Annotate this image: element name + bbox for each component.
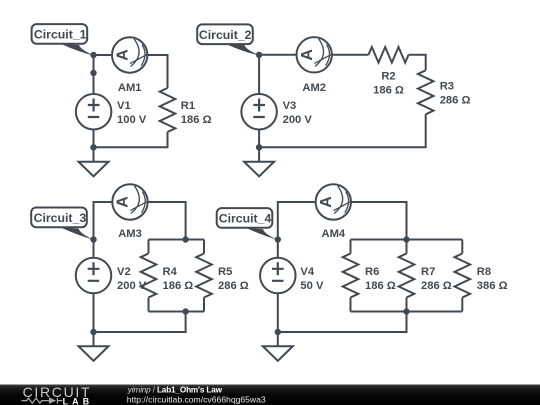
- junction dot at V4 bottom: [275, 329, 281, 335]
- voltage source V3: [241, 94, 277, 130]
- junction dot on wire A-V1: [90, 70, 96, 76]
- wire R1 bottom to ground junction: [94, 132, 168, 147]
- resistor R5: [196, 254, 212, 298]
- footer bar background: [0, 385, 540, 405]
- wire V2 bottom to ground junction: [93, 293, 95, 332]
- logo resistor-diode waveform: [22, 398, 63, 404]
- svg-text:http://circuitlab.com/cv666hqg: http://circuitlab.com/cv666hqg65wa3: [127, 394, 266, 404]
- svg-text:200 V: 200 V: [283, 114, 313, 126]
- wire V3 bottom to ground junction: [258, 129, 260, 147]
- wire R3 bottom to ground junction: [259, 114, 426, 147]
- svg-text:R8: R8: [477, 266, 491, 278]
- svg-text:Circuit_4: Circuit_4: [219, 212, 272, 226]
- R7 top stub: [406, 240, 408, 254]
- wire AM2 to R2: [333, 54, 369, 56]
- wire node A down to V1: [93, 55, 95, 94]
- resistor R4: [141, 254, 157, 298]
- svg-text:yiminp / Lab1_Ohm's Law: yiminp / Lab1_Ohm's Law: [127, 385, 223, 394]
- ammeter AM1: [112, 37, 147, 72]
- wire node C down to V2: [93, 240, 95, 259]
- R8 top stub: [461, 240, 463, 254]
- junction dot at V3 bottom: [256, 144, 262, 150]
- ground (circuit 3): [79, 332, 109, 361]
- ammeter AM2: [297, 37, 332, 72]
- node D junction dot: [275, 236, 281, 242]
- node flag Circuit_4: [217, 208, 279, 240]
- svg-text:Circuit_2: Circuit_2: [199, 28, 252, 42]
- junction dot top rail (circuit 3): [182, 236, 188, 242]
- ground (circuit 4): [263, 332, 293, 361]
- svg-text:50 V: 50 V: [300, 280, 324, 292]
- svg-text:100 V: 100 V: [117, 114, 147, 126]
- svg-text:R1: R1: [181, 100, 195, 112]
- wire node D up and to AM4: [278, 202, 315, 240]
- svg-text:AM3: AM3: [118, 228, 142, 240]
- voltage source V1: [76, 94, 112, 130]
- svg-text:Circuit_1: Circuit_1: [34, 28, 87, 42]
- svg-text:V1: V1: [117, 100, 131, 112]
- svg-text:Circuit_3: Circuit_3: [34, 211, 87, 225]
- wire V1 bottom to ground junction: [93, 129, 95, 147]
- wire V4 bottom to ground junction: [277, 293, 279, 332]
- svg-text:AM1: AM1: [118, 82, 142, 94]
- svg-text:R5: R5: [218, 266, 232, 278]
- voltage source V4: [260, 258, 296, 294]
- node C junction dot: [90, 236, 96, 242]
- R6 top stub: [350, 240, 352, 254]
- wire parallel rail down to bottom wire (circuit 4): [278, 312, 407, 333]
- node A junction dot: [90, 52, 96, 58]
- wire AM4 to right corner down to parallel rail: [352, 202, 407, 240]
- svg-text:286 Ω: 286 Ω: [421, 280, 452, 292]
- node B junction dot: [256, 52, 262, 58]
- svg-text:A: A: [114, 49, 131, 61]
- junction dot bottom rail (circuit 4): [403, 308, 409, 314]
- R4 bottom stub: [148, 298, 150, 312]
- resistor R1: [160, 88, 176, 132]
- ground (circuit 1): [79, 147, 109, 176]
- R5 bottom stub: [203, 298, 205, 312]
- wire AM3 to right corner down to parallel rail: [148, 202, 185, 240]
- svg-text:186 Ω: 186 Ω: [373, 85, 404, 97]
- node flag Circuit_2: [197, 24, 260, 55]
- wire node B down to V3: [258, 55, 260, 94]
- node flag Circuit_3: [31, 208, 94, 240]
- svg-text:AM2: AM2: [302, 82, 326, 94]
- svg-text:186 Ω: 186 Ω: [181, 114, 212, 126]
- wire R2 to R3 top corner: [409, 55, 426, 71]
- ammeter AM4: [316, 184, 351, 219]
- junction dot at V1 bottom: [90, 144, 96, 150]
- svg-text:V4: V4: [300, 266, 314, 278]
- resistor R8: [455, 254, 471, 298]
- resistor R7: [399, 254, 415, 298]
- svg-text:R2: R2: [381, 70, 395, 82]
- svg-text:286 Ω: 286 Ω: [218, 280, 249, 292]
- svg-text:R7: R7: [421, 266, 435, 278]
- junction dot bottom rail (circuit 3): [182, 308, 188, 314]
- svg-text:A: A: [115, 196, 132, 208]
- wire node A to ammeter AM1: [94, 54, 112, 56]
- wire AM1 to R1 top: [148, 55, 168, 88]
- svg-text:286 Ω: 286 Ω: [440, 95, 471, 107]
- svg-text:AM4: AM4: [321, 228, 345, 240]
- node flag Circuit_1: [32, 24, 95, 56]
- voltage source V2: [76, 258, 112, 294]
- svg-text:386 Ω: 386 Ω: [477, 280, 508, 292]
- junction dot top rail (circuit 4): [403, 236, 409, 242]
- svg-text:V3: V3: [283, 100, 297, 112]
- svg-text:A: A: [299, 49, 316, 61]
- svg-text:V2: V2: [117, 266, 131, 278]
- svg-text:186 Ω: 186 Ω: [365, 280, 396, 292]
- R6 bottom stub: [350, 298, 352, 312]
- ground (circuit 2): [244, 147, 274, 176]
- resistor R2 (horizontal): [369, 47, 409, 63]
- resistor R6: [343, 254, 359, 298]
- wire parallel rail down to bottom wire: [94, 312, 186, 333]
- bottom parallel rail (circuit 4): [351, 311, 463, 313]
- svg-text:R3: R3: [440, 80, 454, 92]
- svg-text:LAB: LAB: [63, 396, 94, 405]
- R5 top stub: [203, 240, 205, 254]
- svg-text:R4: R4: [163, 266, 178, 278]
- top parallel rail (circuit 3): [149, 239, 205, 241]
- R8 bottom stub: [461, 298, 463, 312]
- bottom parallel rail (circuit 3): [149, 311, 205, 313]
- svg-text:R6: R6: [365, 266, 379, 278]
- R4 top stub: [148, 240, 150, 254]
- wire node C up and to AM3: [94, 202, 112, 240]
- junction dot at V2 bottom: [90, 329, 96, 335]
- resistor R3: [418, 70, 434, 114]
- top parallel rail (circuit 4): [351, 239, 463, 241]
- svg-text:186 Ω: 186 Ω: [163, 280, 194, 292]
- wire node D down to V4: [277, 240, 279, 259]
- R7 bottom stub: [406, 298, 408, 312]
- wire node B to ammeter AM2: [259, 54, 296, 56]
- svg-text:A: A: [318, 196, 335, 208]
- ammeter AM3: [112, 184, 147, 219]
